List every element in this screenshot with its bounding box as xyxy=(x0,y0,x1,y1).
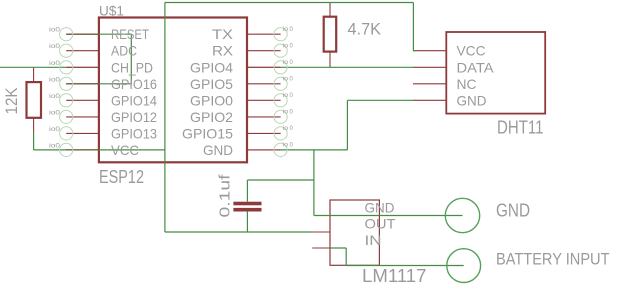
svg-text:CH_PD: CH_PD xyxy=(111,59,153,75)
wire net battery vertical jog xyxy=(345,248,347,266)
svg-text:io: io xyxy=(283,27,289,33)
svg-text:GND: GND xyxy=(496,201,530,221)
wire net battery bottom horizontal xyxy=(346,265,464,267)
wire 4.7K bottom lead xyxy=(329,52,331,68)
wire 4.7K top lead xyxy=(329,3,331,17)
svg-text:GPIO13: GPIO13 xyxy=(111,125,157,141)
wire 12K top lead xyxy=(33,67,35,82)
svg-text:io0: io0 xyxy=(49,143,61,149)
wire ESP12 CH_PD pin stub xyxy=(66,66,99,68)
svg-text:GPIO0: GPIO0 xyxy=(190,92,233,108)
node ESP12 left pin 1 circle xyxy=(60,28,73,41)
node ESP12 right pin 2 circle xyxy=(274,44,287,57)
svg-text:VCC: VCC xyxy=(111,142,139,158)
wire ESP12 GPIO13 pin stub xyxy=(66,132,99,134)
node ESP12 right pin 1 circle xyxy=(274,28,287,41)
resistor 12K body xyxy=(27,82,42,118)
svg-text:io0: io0 xyxy=(49,127,61,133)
node ESP12 right pin 3 circle xyxy=(274,61,287,74)
capacitor 0.1uf top plate xyxy=(233,202,261,206)
svg-text:io: io xyxy=(283,44,289,50)
svg-text:NC: NC xyxy=(457,76,477,92)
svg-text:4.7K: 4.7K xyxy=(348,20,382,39)
svg-text:12K: 12K xyxy=(2,87,21,115)
svg-text:GPIO5: GPIO5 xyxy=(190,76,233,92)
wire net RESET to GPIO16 vertical xyxy=(130,34,132,84)
wire ESP12 GPIO16 pin stub xyxy=(66,83,99,85)
wire overlap right stub xyxy=(247,149,281,151)
wire overlap left stub xyxy=(66,33,99,35)
wire ESP12 GPIO15 pin stub xyxy=(247,132,281,134)
node ESP12 right pin 8 circle xyxy=(274,143,287,156)
wire ESP12 RX pin stub xyxy=(247,50,281,52)
wire ESP12 GPIO2 pin stub xyxy=(247,116,281,118)
wire ESP12 GPIO12 pin stub xyxy=(66,116,99,118)
wire net VCC top bus horizontal xyxy=(165,2,414,4)
svg-text:io0: io0 xyxy=(49,94,61,100)
svg-text:DHT11: DHT11 xyxy=(497,118,544,138)
wire net GND to DHT11 pin xyxy=(347,99,414,101)
wire net VCC to LM1117 OUT xyxy=(165,231,312,233)
IC U$1 ESP12 box xyxy=(99,18,247,163)
wire ESP12 GND pin stub xyxy=(247,149,281,151)
wire net CH_PD from left edge to pin xyxy=(0,66,66,68)
wire ESP12 RESET pin stub xyxy=(66,33,99,35)
svg-text:GPIO12: GPIO12 xyxy=(111,109,157,125)
svg-text:ADC: ADC xyxy=(111,43,137,59)
wire ESP12 GPIO0 pin stub xyxy=(247,99,281,101)
wire net VCC into DHT11 pin xyxy=(413,50,416,52)
svg-text:0.1uf: 0.1uf xyxy=(217,173,234,217)
wire ESP12 TX pin stub xyxy=(247,33,281,35)
wire net DATA GPIO4 to DHT11 xyxy=(281,66,414,68)
svg-text:VCC: VCC xyxy=(457,43,486,59)
wire ESP12 GPIO5 pin stub xyxy=(247,83,281,85)
wire net 12K bottom to VCC row xyxy=(33,133,35,150)
wire net GND to terminal circle xyxy=(314,215,463,217)
node ESP12 left pin 4 circle xyxy=(60,77,73,90)
wire net RESET horizontal xyxy=(66,33,131,35)
capacitor 0.1uf bottom plate xyxy=(233,208,261,212)
svg-text:OUT: OUT xyxy=(365,215,396,231)
wire LM1117 OUT pin stub xyxy=(312,231,330,233)
node ESP12 left pin 3 circle xyxy=(60,61,73,74)
svg-text:LM1117: LM1117 xyxy=(362,266,427,286)
wire ESP12 ADC pin stub xyxy=(66,50,99,52)
svg-text:ESP12: ESP12 xyxy=(99,167,144,187)
svg-text:DATA: DATA xyxy=(457,59,495,75)
wire net battery to IN pin xyxy=(330,247,346,249)
wire net VCC drop to DHT11 xyxy=(412,3,414,51)
wire 12K bottom lead xyxy=(33,118,35,133)
wire LM1117 IN pin stub xyxy=(312,247,330,249)
node ESP12 right pin 6 circle xyxy=(274,110,287,123)
svg-text:GPIO4: GPIO4 xyxy=(190,59,233,75)
wire net VCC row horizontal xyxy=(34,149,165,151)
wire LM1117 GND pin stub xyxy=(379,215,396,217)
wire overlap left stub xyxy=(66,83,99,85)
svg-text:io0: io0 xyxy=(49,110,61,116)
svg-text:GPIO16: GPIO16 xyxy=(111,76,157,92)
node ESP12 right pin 7 circle xyxy=(274,127,287,140)
wire net VCC main vertical xyxy=(164,3,166,233)
svg-text:GPIO14: GPIO14 xyxy=(111,92,157,108)
svg-text:io: io xyxy=(283,77,289,83)
svg-text:TX: TX xyxy=(212,26,234,42)
svg-text:GND: GND xyxy=(457,92,487,108)
node ESP12 left pin 2 circle xyxy=(60,44,73,57)
svg-text:io0: io0 xyxy=(49,28,61,34)
node ESP12 left pin 6 circle xyxy=(60,110,73,123)
svg-text:GND: GND xyxy=(203,142,233,158)
resistor 4.7K body xyxy=(324,17,337,52)
svg-text:io: io xyxy=(283,126,289,132)
node GND terminal circle xyxy=(445,198,479,232)
svg-text:RESET: RESET xyxy=(111,26,149,42)
node ESP12 left pin 7 circle xyxy=(60,127,73,140)
svg-text:U$1: U$1 xyxy=(99,3,124,19)
svg-text:BATTERY INPUT: BATTERY INPUT xyxy=(496,250,610,269)
svg-text:io0: io0 xyxy=(49,44,61,50)
wire net GND ESP12 row horizontal xyxy=(281,149,348,151)
wire overlap left stub xyxy=(66,66,99,68)
svg-text:IN: IN xyxy=(365,232,382,248)
wire net cap bottom lead xyxy=(246,211,248,232)
svg-text:io0: io0 xyxy=(49,77,61,83)
svg-text:io0: io0 xyxy=(49,61,61,67)
node ESP12 left pin 5 circle xyxy=(60,94,73,107)
IC DHT11 box xyxy=(446,32,545,114)
svg-text:GPIO2: GPIO2 xyxy=(190,109,233,125)
svg-text:io: io xyxy=(283,110,289,116)
wire net GND main drop xyxy=(313,150,315,216)
regulator LM1117 box xyxy=(330,200,379,265)
node BATTERY INPUT terminal circle xyxy=(447,249,481,283)
wire ESP12 GPIO4 pin stub xyxy=(247,66,281,68)
svg-text:RX: RX xyxy=(212,43,234,59)
wire ESP12 VCC pin stub xyxy=(66,149,99,151)
wire DHT11 NC pin stub xyxy=(413,83,446,85)
svg-text:io: io xyxy=(283,143,289,149)
svg-text:io: io xyxy=(283,60,289,66)
wire net cap top horizontal xyxy=(247,179,314,181)
wire DHT11 VCC pin stub xyxy=(413,50,446,52)
node ESP12 right pin 4 circle xyxy=(274,77,287,90)
wire DHT11 DATA pin stub xyxy=(413,66,446,68)
svg-text:GND: GND xyxy=(365,199,395,215)
node ESP12 left pin 8 circle xyxy=(60,143,73,156)
wire net GPIO16 horizontal xyxy=(66,83,131,85)
wire net GND DHT11 vertical riser xyxy=(346,100,348,150)
wire overlap left stub xyxy=(66,149,99,151)
svg-text:io: io xyxy=(283,93,289,99)
wire overlap right stub xyxy=(247,66,281,68)
svg-text:GPIO15: GPIO15 xyxy=(182,125,233,141)
wire DHT11 GND pin stub xyxy=(413,99,446,101)
node ESP12 right pin 5 circle xyxy=(274,94,287,107)
wire net cap top lead xyxy=(246,180,248,202)
wire ESP12 GPIO14 pin stub xyxy=(66,99,99,101)
